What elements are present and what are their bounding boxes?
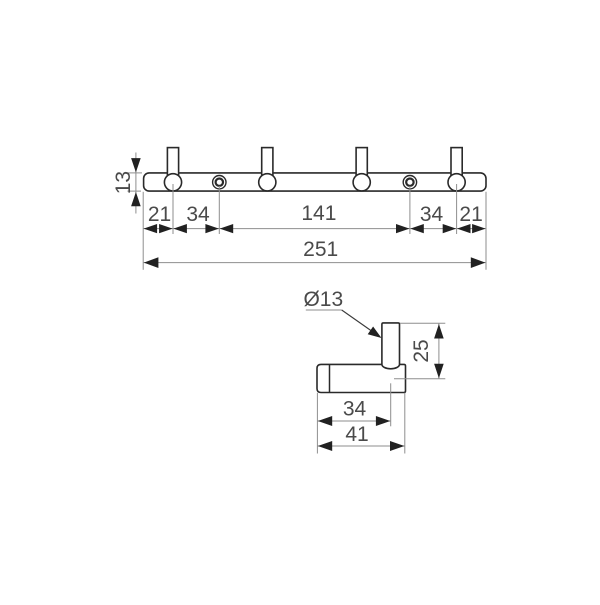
row 1 arrowheads: [144, 224, 486, 233]
extension line: side bar right end: [404, 393, 406, 454]
extension line: hook 1 centre: [172, 184, 174, 234]
extension line: peg centre: [390, 383, 392, 426]
hook stem 1: [167, 148, 178, 182]
dimension 13: bar height, left side: [112, 153, 142, 214]
dimension line row 1 (21/34/141/34/21): [143, 228, 486, 230]
svg-text:25: 25: [410, 339, 433, 362]
svg-text:41: 41: [345, 423, 368, 446]
extension line: left screw centre: [218, 186, 220, 234]
svg-text:Ø13: Ø13: [303, 288, 343, 311]
hook stem 2: [262, 148, 273, 182]
rail bar (front view): [144, 173, 486, 191]
extension line: right screw centre: [409, 186, 411, 234]
svg-text:34: 34: [343, 398, 367, 421]
hook stem 4: [451, 148, 462, 182]
dimension 34 (side view): [317, 398, 390, 427]
extension line: bar left end: [142, 192, 144, 270]
svg-text:141: 141: [301, 202, 336, 225]
hook base circle 4: [448, 174, 465, 191]
extension line: hook 4 centre: [456, 184, 458, 234]
svg-text:21: 21: [148, 203, 171, 226]
hook base circle 3: [353, 174, 370, 191]
leader label Ø13: [303, 288, 381, 338]
svg-text:13: 13: [112, 171, 135, 194]
svg-text:34: 34: [186, 203, 210, 226]
rail bar (side view): [317, 364, 406, 392]
hook base circle 2: [259, 174, 276, 191]
extension line: bar right end: [485, 192, 487, 270]
dimension 41 (side view): [317, 423, 404, 451]
svg-text:21: 21: [459, 203, 482, 226]
hook stem 3: [356, 148, 367, 182]
bar end cap line (side view): [329, 364, 331, 392]
dimension line row 2 (251): [143, 262, 486, 264]
row 2 arrowheads: [144, 257, 486, 268]
hook base circle 1: [164, 174, 181, 191]
screw hole left: [213, 176, 226, 189]
screw hole right: [403, 176, 416, 189]
hook peg (side view): [382, 323, 400, 369]
dimension 25: peg height, right side: [394, 323, 445, 379]
svg-text:34: 34: [420, 203, 444, 226]
svg-text:251: 251: [303, 238, 338, 261]
extension line: side bar left end: [316, 393, 318, 454]
